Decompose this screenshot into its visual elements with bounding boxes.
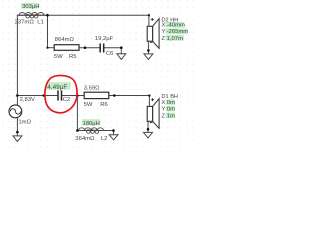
highlight 303uH [21,3,39,9]
node marker L2 right [112,129,115,132]
svg-text:X0m: X0m [162,100,176,106]
junction node D2 ground [147,49,150,52]
wire top rail [17,14,149,16]
junction node after L1 [46,14,49,17]
wire R5 to C6 [79,47,100,49]
highlight D2 Z value [166,35,185,41]
junction node C6 ground [120,46,123,49]
junction node L2 branch [76,94,79,97]
resistor R6 [84,92,109,98]
wire C2 to R6 [62,95,84,97]
wire stub to ground G1 [120,48,122,54]
svg-text:19,2µF: 19,2µF [95,36,114,42]
corner node L2 left [76,129,79,132]
wire D2 minus terminal to ground [147,41,149,54]
junction node source top [16,94,19,97]
svg-text:4,49µF: 4,49µF [47,84,67,91]
junction node D1 ground [147,128,150,131]
svg-text:2,83V: 2,83V [20,97,35,103]
svg-text:864mΩ: 864mΩ [55,37,75,43]
wire L2 right end [103,130,114,132]
node marker between R5 and C6 [84,46,87,49]
wire drop into speaker D2 [148,15,150,26]
wire D1 minus terminal to ground [147,121,149,132]
inductor L2 [77,128,103,134]
corner node at D2 drop [148,14,150,16]
wire left rail down to source [16,15,18,105]
junction node source ground [16,131,19,134]
highlight D1 Y value [166,106,175,111]
wire R6 to D1 corner [109,95,150,97]
capacitor C6 [100,43,104,52]
ground under D2 [144,54,153,60]
AC source V1 [9,105,22,118]
speaker D1 minus sign [150,122,153,124]
node marker after R6 [113,94,116,97]
resistor R5 [54,45,79,51]
ground after L2 [109,135,118,140]
ground under D1 [144,132,153,138]
wire branch down from bottom row to L2 [76,96,78,131]
wire bottom row from source to C2 [17,95,57,97]
corner node at D1 drop [148,95,150,97]
highlight D2 Y value [166,29,188,35]
svg-text:C2: C2 [63,97,71,103]
ground under source [13,136,22,142]
svg-text:3,59Ω: 3,59Ω [84,85,100,91]
highlight D2 X value [166,22,185,28]
capacitor C2 [58,90,62,100]
wire L2 ground stub [113,131,115,135]
speaker D1 [147,99,159,129]
svg-text:Z1,07m: Z1,07m [162,36,184,42]
svg-text:Z1m: Z1m [162,113,176,119]
corner node R5 row [46,47,48,49]
svg-text:237mΩL1: 237mΩL1 [15,19,44,25]
speaker D1 plus sign [151,98,154,101]
svg-text:X-40mm: X-40mm [162,23,186,29]
wire R5 row left stub [48,47,55,49]
wire source to ground [16,117,18,136]
highlight 180uH [82,119,101,125]
svg-text:Y0m: Y0m [162,107,176,113]
node marker before C2 [43,94,46,97]
inductor L1 [17,13,47,18]
highlight D1 X value [166,100,175,105]
wire C6 to ground node [104,47,121,49]
svg-text:364mΩL2: 364mΩL2 [75,136,107,142]
svg-text:303µH: 303µH [22,4,39,10]
ground after C6 [117,54,126,60]
svg-text:180µH: 180µH [83,121,100,127]
wire drop into speaker D1 [148,96,150,107]
svg-text:1mΩ: 1mΩ [18,119,31,125]
speaker D2 [147,19,159,49]
highlight D1 Z value [166,113,175,118]
speaker D2 minus sign [150,41,153,43]
wire branch down from node after L1 to R5 row [47,15,49,48]
annotation red ellipse around C2 [45,75,77,112]
svg-text:D1 BH: D1 BH [162,94,178,100]
highlight 4,49uF [46,82,71,90]
svg-text:C6: C6 [106,51,114,57]
speaker D2 plus sign [151,18,154,21]
